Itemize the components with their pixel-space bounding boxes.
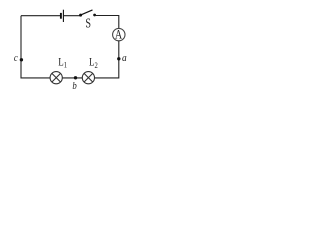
wire ammeter to bottom-right corner — [95, 41, 119, 78]
lamp L1 — [50, 72, 62, 84]
lamp L2 — [82, 72, 94, 84]
svg-text:L2: L2 — [89, 57, 98, 70]
svg-text:a: a — [122, 52, 127, 64]
battery cell — [61, 10, 64, 22]
wire top-left horizontal — [21, 15, 60, 17]
switch S — [79, 10, 96, 17]
wire L1 to bottom-left corner and up left side — [21, 16, 50, 78]
svg-text:A: A — [115, 27, 123, 41]
wire switch to top-right corner and down — [95, 16, 119, 29]
node a — [117, 57, 120, 60]
svg-text:L1: L1 — [58, 56, 67, 69]
wire L2 to L1 — [62, 77, 82, 79]
wire battery to switch — [64, 15, 80, 17]
node b — [74, 76, 77, 79]
ammeter A — [113, 27, 125, 41]
node c — [20, 58, 23, 61]
svg-text:b: b — [72, 80, 76, 92]
svg-text:S: S — [85, 15, 91, 31]
svg-text:c: c — [14, 52, 18, 64]
